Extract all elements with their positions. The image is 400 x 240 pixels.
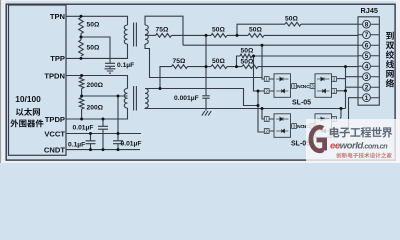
PHY block 10/100 Ethernet device — [9, 5, 67, 155]
left light margin — [1, 0, 5, 163]
wire row pin5 — [252, 55, 358, 57]
svg-text:0.01µF: 0.01µF — [121, 141, 142, 148]
SL-05 U2 internal diodes — [317, 77, 329, 93]
svg-text:3: 3 — [293, 84, 296, 89]
svg-text:CNDT: CNDT — [44, 145, 65, 154]
wire common to resistor — [206, 34, 237, 36]
svg-text:eeworld.com.cn: eeworld.com.cn — [330, 141, 388, 152]
wire CNDT row — [66, 149, 140, 151]
wire left end of lower 75ohm down to T2 secondary top line — [160, 67, 172, 89]
capacitor 0.01uF TPDP-CNDT — [98, 119, 108, 150]
bottom light sliver — [1, 161, 396, 163]
watermark slogan — [336, 153, 392, 158]
wire pin5 row tap to U1 pin2 — [254, 56, 265, 91]
SL-05 U3 pin numbers — [265, 117, 304, 134]
watermark title — [330, 127, 393, 138]
SL-05 U2 pin squares — [310, 77, 336, 94]
SL-05 U1 pin squares — [264, 77, 296, 94]
wire TPDP to T2 primary bottom — [66, 108, 128, 119]
svg-text:200Ω: 200Ω — [87, 82, 104, 89]
svg-text:75Ω: 75Ω — [173, 58, 186, 65]
wire T1 center tap to 75ohm — [145, 34, 156, 36]
wire segs row pin4 — [206, 66, 242, 68]
svg-text:50Ω: 50Ω — [212, 58, 225, 65]
SL-05 U3 pin squares — [264, 117, 296, 134]
resistor 200ohm upper — [79, 77, 84, 89]
wire T2 secondary bottom lead H4 — [145, 107, 346, 110]
svg-text:0.1µF: 0.1µF — [117, 62, 134, 69]
wire T2 secondary top lead H1 — [145, 89, 258, 106]
svg-text:2: 2 — [333, 77, 336, 82]
svg-text:TPP: TPP — [50, 54, 65, 63]
SL-05 U2 pin numbers — [303, 77, 336, 94]
svg-text:3: 3 — [293, 124, 296, 129]
right light margin — [396, 0, 400, 163]
transformer T1 secondary winding — [145, 25, 148, 44]
svg-text:0.01µF: 0.01µF — [73, 125, 94, 132]
capacitor 0.01uF VCCT-CNDT right — [113, 134, 123, 150]
svg-text:2: 2 — [265, 89, 268, 94]
svg-text:50Ω: 50Ω — [212, 27, 225, 34]
capacitor 0.1uF near T1 — [105, 63, 115, 68]
outer frame — [6, 4, 395, 160]
capacitor 0.1uF VCCT-CNDT — [86, 134, 96, 150]
resistor 200ohm lower — [79, 98, 84, 110]
svg-text:0.001µF: 0.001µF — [174, 95, 199, 102]
svg-text:NC: NC — [303, 84, 310, 90]
wire pin6 row tap to U1 pin1 — [262, 45, 264, 79]
svg-text:50Ω: 50Ω — [241, 59, 254, 66]
svg-text:2: 2 — [265, 129, 268, 134]
svg-text:3: 3 — [365, 74, 369, 81]
resistor 75ohm lower — [172, 65, 188, 69]
transformer T2 primary winding — [124, 89, 127, 109]
wire U4 pin2 riser to H4 — [340, 109, 341, 118]
SL-05 U4 body — [310, 114, 336, 138]
transformer T1 core — [134, 23, 137, 47]
wire U1 pin2 node down to U3 pin2 — [258, 91, 264, 132]
svg-text:7: 7 — [365, 32, 369, 39]
resistor 50ohm to RJ45 pin8 — [285, 22, 301, 26]
wire N2 riser to pin5 row — [237, 56, 241, 67]
svg-text:2: 2 — [365, 85, 369, 92]
wire to RJ45 pin2 — [346, 86, 359, 88]
wire to RJ45 pin3 — [346, 76, 359, 78]
top light sliver — [1, 0, 396, 1]
svg-text:200Ω: 200Ω — [87, 105, 104, 112]
SL-05 U1 body — [269, 74, 292, 98]
wire U4 pin1 to RJ45 pin1 — [340, 98, 358, 132]
wire TPDN to T2 primary top — [66, 76, 128, 89]
wire N1 riser to pin8 row — [237, 24, 285, 35]
svg-text:0.1µF: 0.1µF — [68, 142, 85, 149]
svg-text:3: 3 — [311, 84, 314, 89]
svg-text:10/100: 10/100 — [15, 94, 41, 104]
svg-text:1: 1 — [333, 89, 336, 94]
resistor 50ohm to RJ45 pin7 — [248, 34, 264, 38]
svg-text:50Ω: 50Ω — [87, 22, 100, 29]
svg-text:RJ45: RJ45 — [361, 6, 378, 15]
wire common node vertical to 0.001uF — [205, 35, 207, 95]
RJ45 connector box — [358, 17, 379, 105]
watermark logo G — [311, 127, 325, 151]
left gray edge line — [0, 0, 1, 163]
svg-text:1: 1 — [365, 95, 369, 102]
wire row pin8 — [301, 23, 358, 25]
resistor 50ohm to node N2 — [211, 65, 227, 69]
svg-text:VCCT: VCCT — [44, 129, 65, 138]
resistor 50ohm to RJ45 pin4 — [242, 65, 258, 69]
svg-text:TPN: TPN — [50, 12, 65, 21]
RJ45 pin numbers — [365, 22, 369, 103]
resistor 50ohm to RJ45 pin5 — [240, 54, 252, 58]
wire 75ohm lower to common node — [188, 66, 207, 68]
svg-text:50Ω: 50Ω — [87, 45, 100, 52]
SL-05 U2 body — [310, 74, 336, 98]
svg-text:50Ω: 50Ω — [285, 16, 298, 23]
transformer T2 secondary winding — [145, 89, 148, 109]
SL-05 U4 pin numbers — [303, 117, 336, 134]
svg-text:8: 8 — [365, 22, 369, 29]
svg-text:50Ω: 50Ω — [241, 48, 254, 55]
RJ45 pin circles — [358, 20, 379, 101]
svg-text:1: 1 — [265, 117, 268, 122]
svg-text:SL-05: SL-05 — [292, 100, 311, 107]
wire 200ohm chain — [81, 76, 83, 120]
svg-text:TPDN: TPDN — [44, 71, 65, 80]
wire T2 primary center tap to 200ohm midpoint — [82, 95, 128, 97]
wire termination midpoint to cap — [81, 34, 110, 64]
svg-text:6: 6 — [365, 43, 369, 50]
wire TPP to transformer T1 primary bottom — [66, 44, 128, 58]
wire 75ohm to common node — [172, 34, 207, 36]
SL-05 U1 pin numbers — [265, 77, 304, 94]
ground symbol below 0.1uF — [105, 69, 116, 73]
resistor 50ohm upper termination — [79, 18, 84, 34]
svg-text:5: 5 — [365, 53, 369, 60]
capacitor 0.001uF — [202, 96, 209, 111]
transformer T1 primary winding — [124, 25, 127, 44]
svg-text:75Ω: 75Ω — [156, 27, 169, 34]
wire TPN to transformer T1 primary top — [66, 16, 128, 25]
wire row pin4 to RJ45 — [258, 66, 358, 68]
SL-05 U3 internal diodes — [276, 117, 288, 133]
wire row pin7 — [237, 34, 358, 36]
resistor 75ohm upper — [156, 34, 172, 38]
SL-05 U4 pin squares — [310, 117, 336, 134]
SL-05 U1 internal diodes — [276, 77, 288, 93]
watermark panel — [306, 119, 400, 163]
wire center tap node down to VCCT — [117, 96, 119, 134]
SL-05 U3 body — [269, 114, 292, 138]
wire T1 secondary bottom staircase — [145, 44, 262, 78]
wire H4 tap to U3 pin1 — [262, 109, 264, 120]
svg-text:4: 4 — [365, 64, 369, 71]
chassis ground below 0.001uF — [202, 111, 211, 116]
wire U2 pin2 stub — [337, 78, 346, 80]
wire T1 secondary top to pin6 row — [145, 16, 183, 45]
vertical label to twisted pair network — [386, 32, 394, 40]
wire U2 pin1 stub — [337, 90, 346, 92]
vertical bus right of U2 — [345, 67, 347, 109]
svg-text:TPDP: TPDP — [45, 115, 65, 124]
resistor 50ohm lower termination — [79, 40, 84, 56]
transformer T2 core — [134, 86, 137, 111]
resistor 50ohm to node N1 — [211, 34, 227, 38]
svg-text:1: 1 — [265, 77, 268, 82]
svg-text:50Ω: 50Ω — [249, 27, 262, 34]
wire row pin6 — [183, 44, 358, 46]
wire VCCT row — [66, 133, 141, 135]
SL-05 U4 internal diodes — [317, 117, 329, 133]
